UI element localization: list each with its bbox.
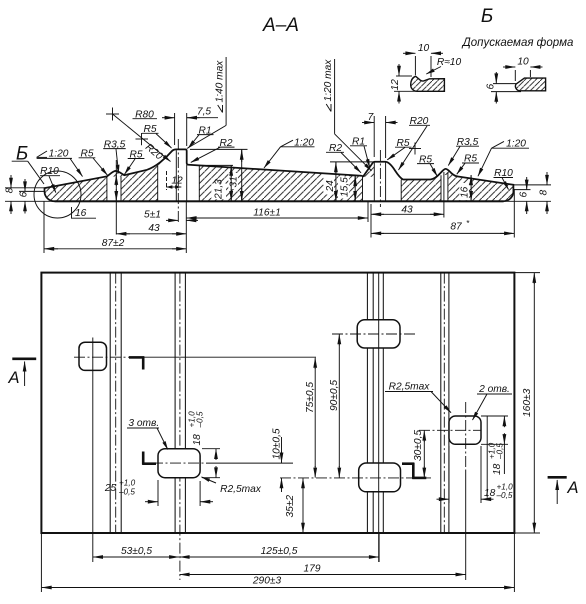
dim 7,5 above peak xyxy=(162,107,218,147)
dim 18 hole3 vertical xyxy=(481,416,508,475)
svg-text:1:40 max: 1:40 max xyxy=(215,60,226,103)
hole 4 center bottom xyxy=(359,463,401,492)
label R1 right xyxy=(350,137,370,168)
svg-text:1:20: 1:20 xyxy=(294,137,314,148)
svg-text:А–А: А–А xyxy=(262,15,299,36)
dim 179 xyxy=(180,564,466,575)
hole 2 center top xyxy=(357,320,400,348)
svg-text:75±0,5: 75±0,5 xyxy=(305,382,316,413)
svg-text:Б: Б xyxy=(481,6,493,27)
svg-text:Допускаемая форма: Допускаемая форма xyxy=(461,37,574,49)
detail 1 label R≈10 xyxy=(426,57,461,74)
section plane jog mark 2 xyxy=(402,462,414,465)
detail 1 body (left, allowed dip) xyxy=(411,76,445,91)
svg-text:87±2: 87±2 xyxy=(102,238,125,249)
dim 15,5 xyxy=(340,176,362,201)
svg-text:43: 43 xyxy=(401,205,413,216)
groove lines cluster A xyxy=(109,273,111,533)
dim 87* xyxy=(371,219,514,233)
svg-text:–0,5: –0,5 xyxy=(196,411,205,428)
slope label 1:20 max (vertical) xyxy=(323,59,372,171)
svg-text:160±3: 160±3 xyxy=(522,388,533,417)
label R5 (hump top right fillet) xyxy=(387,138,411,160)
svg-text:–0,5: –0,5 xyxy=(496,491,513,500)
label 3 holes xyxy=(127,418,168,450)
dim 16 right xyxy=(460,175,472,201)
extension line right of hole 3 xyxy=(486,416,488,498)
dim 16 left with shelf xyxy=(71,160,116,235)
svg-text:1:20 max: 1:20 max xyxy=(323,59,334,102)
svg-text:21,3: 21,3 xyxy=(214,179,225,200)
svg-text:А: А xyxy=(566,479,578,497)
label R20 right with cross xyxy=(399,116,431,170)
svg-text:53±0,5: 53±0,5 xyxy=(121,546,152,557)
detail 2 dim 6 xyxy=(486,72,522,104)
svg-text:116±1: 116±1 xyxy=(253,208,281,219)
cross mark R20 center + radial leader xyxy=(113,114,171,162)
svg-text:6: 6 xyxy=(19,191,30,197)
hatch gap for dim text 21,3 xyxy=(212,184,227,200)
detail 1 dim 10 xyxy=(403,43,443,77)
rail-seat peak rib (unhatched) xyxy=(176,150,186,201)
dim 30±0.5 xyxy=(413,430,424,478)
svg-text:15,5: 15,5 xyxy=(340,177,351,197)
hatch gap for dim text 15,5 xyxy=(338,177,349,199)
svg-text:3 отв.: 3 отв. xyxy=(128,418,159,429)
inner vertical edges of grooves xyxy=(106,176,108,201)
detail circle Б around left tip xyxy=(34,171,81,218)
PLAN VIEW xyxy=(7,273,578,592)
detail 2 body (right) xyxy=(515,78,545,91)
svg-text:А: А xyxy=(7,369,19,387)
cross mark R80 center xyxy=(106,108,119,121)
svg-text:6: 6 xyxy=(486,84,497,90)
svg-text:8: 8 xyxy=(5,187,16,193)
label R2 left xyxy=(191,138,235,163)
svg-text:10: 10 xyxy=(517,57,529,68)
dim 87±2 xyxy=(44,238,186,249)
svg-text:+1,0: +1,0 xyxy=(119,479,136,488)
svg-text:8: 8 xyxy=(539,190,550,196)
hole 1 centerlines xyxy=(74,356,136,358)
labels R5 R3,5 R5 at left small bump xyxy=(79,149,108,176)
hole 3 right xyxy=(449,416,481,444)
dim 290±3 xyxy=(42,576,514,588)
centerline of right hump xyxy=(379,150,381,207)
svg-text:18: 18 xyxy=(192,434,203,446)
groove channel C1 (under left bead) xyxy=(107,177,121,202)
svg-text:35±2: 35±2 xyxy=(285,495,296,518)
label R80 with shelf xyxy=(133,110,158,121)
label R2 right xyxy=(326,143,361,173)
dim 90±0.5 xyxy=(329,334,340,477)
title B (detail label) xyxy=(481,6,493,27)
svg-text:7: 7 xyxy=(368,112,374,123)
hatch gap for dim text 31 xyxy=(228,173,238,189)
slope label 1:40 max (vertical) xyxy=(187,57,226,149)
svg-text:10: 10 xyxy=(418,43,430,54)
svg-text:18: 18 xyxy=(484,488,496,499)
svg-text:12: 12 xyxy=(390,79,401,91)
svg-text:1:20: 1:20 xyxy=(506,139,526,150)
label Б with leader xyxy=(12,144,44,185)
dim 31 xyxy=(190,149,248,201)
DETAIL VIEWS xyxy=(390,43,546,104)
labels R5 R3,5 R5 at right small bump xyxy=(417,154,437,176)
hatch gap for dim text 24 xyxy=(324,174,335,195)
svg-text:125±0,5: 125±0,5 xyxy=(261,546,298,557)
svg-text:10±0,5: 10±0,5 xyxy=(272,428,283,459)
slope mark 1:20 middle xyxy=(264,137,315,168)
hole 2 centerline xyxy=(332,333,415,335)
svg-text:5±1: 5±1 xyxy=(144,210,161,221)
dim 10±0.5 xyxy=(272,428,283,492)
svg-text:31: 31 xyxy=(229,176,240,187)
dim 18 hole5 vertical xyxy=(188,411,221,478)
centerline of right small bump / ext of dim 43 xyxy=(443,172,445,218)
caption: allowed shape xyxy=(461,37,574,49)
slope mark 1:20 right xyxy=(478,139,529,177)
svg-text:–0,5: –0,5 xyxy=(118,488,135,497)
groove channel C3 (right of rail-seat peak) xyxy=(187,165,199,201)
svg-text:179: 179 xyxy=(304,564,321,575)
hole 5 centerline xyxy=(152,462,206,464)
SECTION A-A : hatched body xyxy=(5,57,552,253)
bottom line (thick) xyxy=(55,200,504,202)
svg-text:16: 16 xyxy=(75,208,87,219)
label R2,5max lower left xyxy=(202,477,262,495)
groove channel C2 (left of rail-seat peak) xyxy=(158,150,177,201)
groove channel C5 (right of right hump) xyxy=(386,163,402,202)
hatch gap for dim text 16 right xyxy=(459,183,469,200)
detail 2 dim 10 xyxy=(503,57,543,82)
dim 75±0.5 xyxy=(305,358,316,478)
dim 43 right xyxy=(371,205,444,216)
dim 160±3 xyxy=(514,273,540,533)
section arrow A right xyxy=(548,477,579,504)
svg-text:290±3: 290±3 xyxy=(252,576,282,587)
dim 53±0.5 xyxy=(93,546,179,557)
groove lines cluster D xyxy=(440,273,442,533)
detail 1 dim 12 xyxy=(390,64,417,104)
svg-text:30±0,5: 30±0,5 xyxy=(413,430,424,461)
dim 21,3 xyxy=(199,165,233,201)
svg-text:R2,5max: R2,5max xyxy=(220,484,262,495)
right hump rib (unhatched) xyxy=(374,162,385,201)
dim 125±0.5 xyxy=(180,546,379,557)
dim 5±1 xyxy=(144,210,198,221)
centerline of left peak xyxy=(177,139,179,222)
label R5 upper (peak left fillet) xyxy=(142,124,172,148)
plate outline xyxy=(41,273,514,533)
bottom extension lines xyxy=(40,533,42,592)
svg-text:25: 25 xyxy=(104,483,117,494)
hole 3 centerlines xyxy=(419,429,481,431)
groove channel C4 (left of right hump) xyxy=(363,177,375,201)
dim 35±2 xyxy=(285,478,303,533)
svg-text:7,5: 7,5 xyxy=(197,107,211,118)
svg-text:R2,5max: R2,5max xyxy=(389,382,431,393)
groove channel C6 (under right bead) xyxy=(441,175,448,201)
hole 5 middle left xyxy=(158,449,200,478)
svg-text:24: 24 xyxy=(325,180,336,193)
svg-text:18: 18 xyxy=(492,463,503,475)
label R10 right xyxy=(494,168,514,189)
section plane jog mark 1b xyxy=(142,452,145,465)
dim 24 xyxy=(325,162,374,201)
svg-text:12: 12 xyxy=(171,176,183,187)
dim 8 right xyxy=(504,172,552,214)
dim 7 above hump xyxy=(362,112,398,158)
label 2 holes xyxy=(473,384,513,420)
hole 4 centerline xyxy=(280,477,431,479)
label R10 left with leader xyxy=(40,166,60,193)
dim 25 hole5 xyxy=(104,479,213,507)
svg-text:–0,5: –0,5 xyxy=(496,443,505,460)
svg-text:6: 6 xyxy=(519,192,530,198)
svg-text:87: 87 xyxy=(450,222,462,233)
bottom dims: extension lines xyxy=(43,201,45,253)
svg-text:2 отв.: 2 отв. xyxy=(478,384,510,395)
svg-text:16: 16 xyxy=(460,186,471,198)
groove lines cluster B xyxy=(174,273,176,533)
groove lines cluster C xyxy=(366,273,368,320)
dim 6 left xyxy=(19,179,45,214)
hole 1 upper left xyxy=(79,342,107,370)
label R20 rotated xyxy=(143,142,165,163)
dim 6 right xyxy=(513,177,530,214)
label R1 left xyxy=(188,125,213,148)
svg-text:90±0,5: 90±0,5 xyxy=(329,380,340,411)
section arrow A left xyxy=(7,359,36,387)
section outline xyxy=(45,149,514,201)
slope mark 1:20 left xyxy=(37,149,83,177)
svg-text:43: 43 xyxy=(148,223,160,234)
dim 8 left xyxy=(5,175,55,214)
dim 43 left xyxy=(116,223,186,234)
title A-A xyxy=(262,15,299,36)
section plane jog mark 1a xyxy=(129,356,144,359)
label R2,5max right xyxy=(385,382,451,413)
dim 18 hole3 horizontal xyxy=(437,446,514,503)
dim 116±1 xyxy=(187,208,368,219)
dim 12 xyxy=(166,171,183,190)
